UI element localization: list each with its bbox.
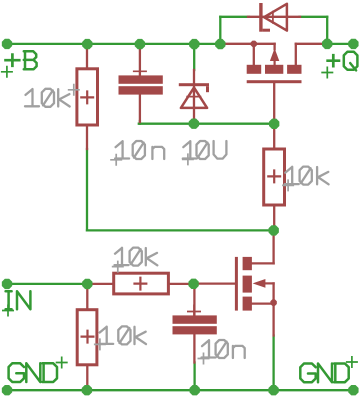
junction C1 top — [135, 39, 145, 49]
resistor R1 body — [77, 69, 98, 125]
diode D1 origin cross — [266, 11, 279, 24]
wire Q2 source green — [272, 336, 274, 391]
pmos Q1 source lead — [222, 43, 275, 45]
resistor R4 origin cross — [81, 330, 95, 344]
wire gate row — [139, 123, 274, 125]
resistor R3 body — [114, 273, 169, 294]
pmos Q1 bulk pad — [265, 65, 283, 74]
wire top rail +B — [7, 43, 222, 45]
nmos Q2 source-bulk dot — [270, 299, 276, 305]
resistor R4 top lead — [86, 284, 88, 310]
pin IN — [2, 279, 12, 289]
resistor R4 body — [77, 310, 97, 365]
capacitor C2 value 10n — [202, 340, 216, 357]
resistor R1 bottom lead — [86, 125, 88, 149]
nmos Q2 source-bulk vertical — [272, 283, 274, 335]
label GND left — [9, 363, 24, 382]
junction C2 bottom — [190, 385, 200, 395]
diode D1 cathode bar — [259, 3, 262, 32]
junction R1 top — [82, 39, 92, 49]
nmos Q2 gate plate — [235, 257, 238, 311]
junction R3 right node — [188, 279, 198, 289]
capacitor C1 origin cross — [133, 64, 147, 78]
junction zener bottom — [189, 119, 199, 129]
resistor R3 left lead — [87, 283, 113, 285]
capacitor C1 top plate — [119, 75, 163, 83]
junction R2 bottom — [269, 225, 279, 235]
wire IN rail — [7, 283, 87, 285]
nmos Q2 source lead — [252, 302, 274, 304]
junction IN node — [82, 279, 92, 289]
diode D1 lead — [248, 16, 300, 18]
pmos Q1 source pad — [247, 65, 262, 74]
resistor R2 origin cross — [267, 169, 281, 183]
capacitor C1 bottom lead — [139, 95, 141, 122]
junction diode loop left — [215, 39, 225, 49]
zener D2 origin cross — [186, 89, 201, 104]
nmos Q2 bulk arrow — [253, 279, 266, 288]
pin GND left — [2, 385, 12, 395]
junction diode loop right — [322, 39, 332, 49]
pmos Q1 drain lead — [296, 43, 327, 45]
wire diode loop left riser — [219, 17, 221, 44]
label IN — [6, 291, 12, 309]
nmos Q2 source pad — [243, 297, 252, 311]
zener D2 triangle — [181, 88, 207, 108]
wire diode loop top left — [220, 16, 249, 18]
wire C1 corner stub — [139, 121, 141, 124]
junction gate row right — [269, 119, 279, 129]
resistor R4 value 10k — [99, 327, 113, 344]
label GND left origin cross — [56, 357, 68, 369]
label +B — [4, 53, 20, 67]
capacitor C2 origin cross — [187, 305, 201, 319]
capacitor C1 value origin cross — [110, 154, 122, 166]
pmos Q1 source-bulk dot — [251, 41, 257, 47]
pmos Q1 source terminal — [253, 44, 255, 65]
resistor R2 value origin cross — [282, 179, 294, 191]
junction Q2 source bottom — [268, 385, 278, 395]
resistor R4 value origin cross — [94, 338, 106, 350]
wire GND rail — [7, 389, 353, 391]
wire diode loop right riser — [326, 17, 328, 44]
diode D1 triangle — [264, 4, 287, 31]
wire R1 bottom vertical — [86, 149, 88, 230]
resistor R1 origin cross — [80, 90, 94, 104]
junction R4 bottom — [82, 385, 92, 395]
label IN origin cross — [2, 305, 14, 317]
wire top rail to +Q — [327, 43, 353, 45]
pmos Q1 gate bar — [247, 80, 302, 83]
pmos Q1 bulk arrow — [273, 44, 275, 49]
pin GND right — [348, 385, 358, 395]
capacitor C2 bottom lead — [193, 334, 195, 362]
nmos Q2 gate lead — [194, 282, 235, 284]
resistor R2 body — [264, 149, 285, 205]
label GND right origin cross — [346, 356, 358, 368]
resistor R1 value origin cross — [68, 84, 80, 96]
pin +Q — [348, 39, 358, 49]
wire zener top — [193, 44, 195, 70]
label +Q origin cross — [321, 67, 333, 79]
nmos Q2 bulk pad — [243, 276, 252, 293]
capacitor C2 value origin cross — [198, 353, 210, 365]
capacitor C2 bottom plate — [173, 326, 217, 334]
label +B origin cross — [1, 66, 13, 78]
zener D2 value origin cross — [182, 153, 194, 165]
resistor R3 value 10k — [115, 248, 129, 265]
label GND right — [300, 364, 315, 383]
nmos Q2 drain lead — [272, 230, 274, 263]
wire diode loop top right — [300, 16, 328, 18]
wire C2 bottom green — [193, 363, 195, 391]
resistor R1 top lead — [86, 44, 88, 69]
resistor R3 right lead — [168, 283, 193, 285]
wire R1 to R2 horizontal — [87, 229, 274, 231]
resistor R2 bottom lead — [273, 205, 275, 230]
pmos Q1 gate lead — [273, 83, 275, 124]
zener D2 value 10V — [183, 141, 197, 158]
capacitor C1 value 10n — [115, 141, 129, 158]
resistor R3 origin cross — [133, 277, 147, 291]
pmos Q1 drain terminal — [295, 44, 297, 65]
capacitor C1 bottom plate — [119, 86, 163, 94]
resistor R2 value 10k — [285, 167, 299, 184]
junction zener top — [189, 39, 199, 49]
pin +B — [2, 39, 12, 49]
resistor R4 bottom lead — [86, 365, 88, 390]
capacitor C2 top lead — [193, 284, 195, 316]
pmos Q1 drain pad — [287, 65, 301, 74]
resistor R1 value 10k — [25, 89, 39, 106]
capacitor C1 top lead — [139, 44, 141, 76]
nmos Q2 drain pad — [243, 257, 252, 270]
label +Q — [326, 54, 340, 68]
capacitor C2 top plate — [173, 315, 217, 323]
resistor R3 value origin cross — [112, 261, 124, 273]
resistor R2 top lead — [273, 124, 275, 149]
zener D2 lead — [193, 70, 195, 124]
zener D2 cathode bar — [179, 83, 209, 86]
